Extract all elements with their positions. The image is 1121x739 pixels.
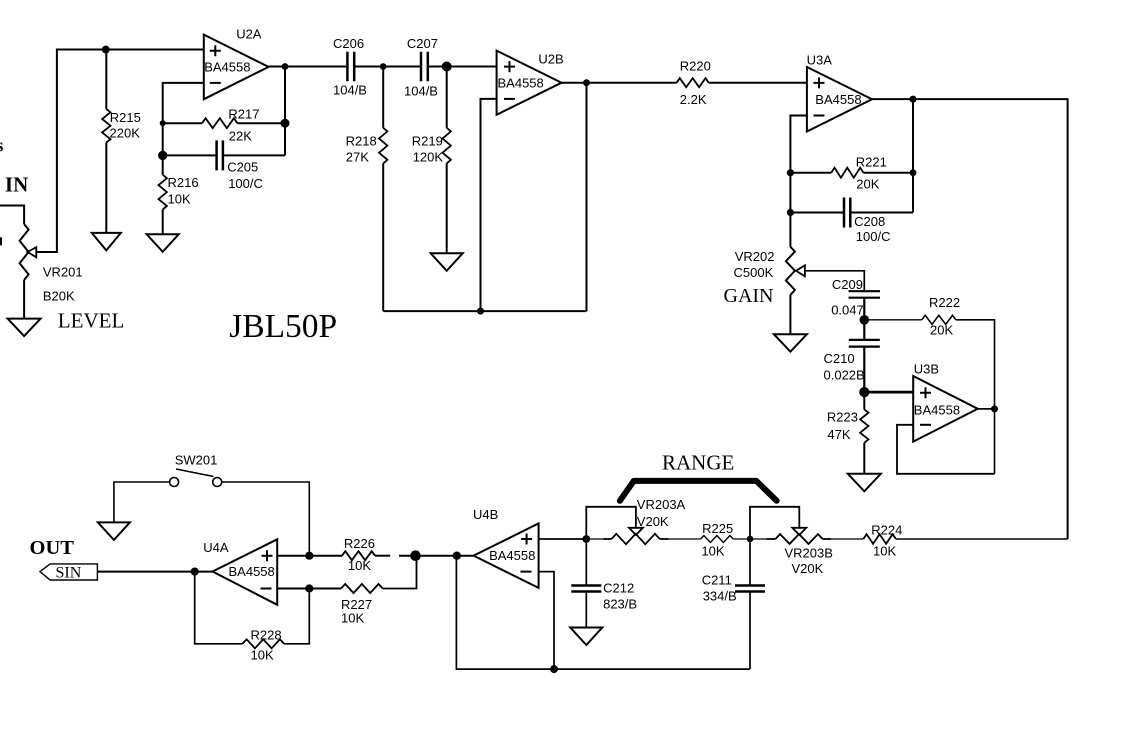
node U3A output: [910, 96, 917, 103]
svg-text:U4A: U4A: [203, 540, 229, 555]
text fragment left edge 2: [0, 237, 2, 245]
svg-text:104/B: 104/B: [333, 83, 367, 98]
svg-text:C209: C209: [832, 277, 863, 292]
wire U2B output: [562, 82, 677, 84]
svg-text:RANGE: RANGE: [662, 451, 734, 475]
node U2B output: [583, 79, 590, 86]
potentiometer VR203B: [750, 538, 766, 540]
capacitor C207: [421, 52, 428, 81]
capacitor C211: [749, 539, 751, 586]
wire U2A feedback from minus: [163, 83, 204, 155]
wire U3A output to far right: [872, 99, 1068, 539]
svg-text:R215: R215: [110, 110, 141, 125]
svg-text:120K: 120K: [413, 150, 444, 165]
RANGE bracket: [620, 481, 777, 501]
resistor R223: [863, 392, 865, 409]
node C208 left: [787, 209, 794, 216]
switch SW201 left contact: [170, 478, 179, 487]
ground under SW201: [98, 522, 130, 540]
svg-text:U3A: U3A: [807, 52, 833, 67]
svg-text:10K: 10K: [701, 543, 724, 558]
svg-text:R218: R218: [346, 134, 377, 149]
svg-text:0.047: 0.047: [831, 303, 864, 318]
svg-text:C500K: C500K: [734, 265, 774, 280]
svg-text:R221: R221: [856, 154, 887, 169]
wire U3B feedback loop: [897, 425, 995, 474]
svg-text:R222: R222: [929, 295, 960, 310]
op-amp U4B: [474, 523, 539, 588]
svg-text:VR203B: VR203B: [785, 545, 833, 560]
U3A plus input mark: [814, 77, 825, 88]
wire VR203B wiper loop: [750, 507, 799, 539]
ground under VR202: [774, 334, 807, 352]
svg-text:R226: R226: [344, 536, 375, 551]
wire C206 to C207: [354, 66, 421, 68]
svg-text:C208: C208: [854, 214, 885, 229]
svg-text:BA4558: BA4558: [498, 76, 544, 91]
wire C207 to U2B: [428, 66, 497, 68]
wire VR201 bottom: [23, 280, 25, 319]
svg-text:823/B: 823/B: [603, 596, 637, 611]
ground under C212: [570, 628, 602, 646]
svg-text:10K: 10K: [873, 543, 896, 558]
wire SW201 to U4A plus: [222, 482, 310, 556]
svg-text:SIN: SIN: [56, 564, 82, 581]
svg-text:R223: R223: [827, 410, 858, 425]
svg-text:100/C: 100/C: [228, 176, 263, 191]
net flag SIN: [40, 564, 97, 580]
node C207 output junction: [442, 62, 452, 72]
svg-text:0.022B: 0.022B: [824, 367, 865, 382]
svg-text:47K: 47K: [827, 427, 850, 442]
U2A plus input mark: [210, 45, 221, 56]
svg-text:C205: C205: [227, 159, 258, 174]
wire U2B output riser: [586, 83, 588, 311]
U2B plus input mark: [504, 61, 515, 72]
switch SW201 arm: [176, 469, 214, 477]
wire U4A minus row: [277, 588, 341, 590]
wiper arrow VR203B: [792, 528, 806, 535]
svg-text:V20K: V20K: [792, 561, 824, 576]
wire U2B feedback bottom rail: [383, 310, 586, 312]
svg-text:BA4558: BA4558: [229, 564, 275, 579]
svg-text:B20K: B20K: [43, 288, 75, 303]
capacitor C212: [585, 539, 587, 586]
U4A minus input mark: [261, 588, 272, 590]
svg-text:VR203A: VR203A: [637, 497, 686, 512]
wire IN to VR201: [0, 206, 24, 225]
wire to U3B plus input: [864, 391, 913, 394]
svg-text:R228: R228: [251, 628, 282, 643]
svg-text:20K: 20K: [856, 176, 879, 191]
wire U2B minus input: [481, 99, 497, 311]
node R217 right: [281, 119, 290, 128]
svg-text:10K: 10K: [168, 191, 191, 206]
node U2B feedback junction: [477, 308, 484, 315]
U4A plus input mark: [262, 550, 273, 561]
wire R226 to junction (after gap): [399, 555, 416, 557]
svg-text:U2B: U2B: [538, 52, 563, 67]
svg-text:BA4558: BA4558: [204, 60, 250, 75]
wiper arrow VR202: [796, 265, 805, 276]
svg-text:10K: 10K: [341, 610, 364, 625]
wire U3B output: [978, 408, 995, 410]
node C206-C207 junction: [380, 63, 387, 70]
U3B plus input mark: [920, 387, 931, 398]
node R221 right: [910, 169, 917, 176]
node U4A minus: [305, 584, 313, 592]
node U4A plus: [305, 552, 313, 560]
resistor R226: [342, 551, 375, 560]
svg-text:20K: 20K: [930, 323, 953, 338]
op-amp U3B: [913, 376, 978, 442]
svg-text:C210: C210: [824, 351, 855, 366]
ground under R216: [147, 234, 179, 252]
resistor R228 feedback: [195, 572, 243, 644]
svg-text:VR202: VR202: [735, 249, 775, 264]
wiper arrow VR203A: [629, 528, 643, 535]
wire U4B plus row: [539, 538, 587, 540]
resistor R225: [701, 536, 734, 543]
svg-text:10K: 10K: [251, 647, 274, 662]
wire U4A plus row: [277, 555, 342, 557]
wire U3A minus input: [790, 116, 807, 247]
node C212 top: [582, 535, 590, 543]
node U3B output: [991, 405, 998, 412]
wire U2A output: [269, 66, 348, 68]
ground under VR201: [8, 319, 41, 337]
svg-text:OUT: OUT: [30, 537, 75, 559]
svg-text:10K: 10K: [348, 558, 371, 573]
svg-text:IN: IN: [5, 172, 28, 196]
svg-text:BA4558: BA4558: [489, 548, 535, 563]
wire C210 to node: [863, 347, 865, 393]
svg-text:27K: 27K: [346, 150, 369, 165]
wire VR201 wiper riser: [36, 50, 204, 253]
node C211 top: [747, 536, 754, 543]
node R226-R227 junction: [410, 550, 421, 561]
resistor R215: [105, 50, 107, 110]
svg-text:V20K: V20K: [637, 514, 669, 529]
svg-text:R216: R216: [168, 175, 199, 190]
svg-text:104/B: 104/B: [404, 83, 438, 98]
resistor R224: [863, 534, 896, 544]
node R221 left: [787, 169, 794, 176]
svg-text:U3B: U3B: [914, 362, 939, 377]
svg-text:C206: C206: [333, 36, 364, 51]
wire U3A output riser: [912, 99, 914, 212]
ground under R223: [848, 474, 881, 492]
ground under R219: [431, 253, 463, 270]
node U3B plus junction: [859, 387, 869, 397]
node C205 left: [158, 151, 167, 160]
svg-text:22K: 22K: [229, 128, 252, 143]
wiper arrow VR201: [28, 247, 37, 257]
svg-text:U2A: U2A: [236, 27, 262, 42]
U2B minus input mark: [504, 98, 515, 100]
capacitor C206: [347, 52, 354, 81]
resistor R222: [864, 319, 922, 321]
svg-text:JBL50P: JBL50P: [229, 308, 337, 345]
resistor R220: [677, 78, 709, 87]
svg-text:R219: R219: [412, 134, 443, 149]
node U4B output: [453, 552, 461, 560]
node C209-C210 junction: [860, 315, 870, 325]
svg-text:R217: R217: [228, 107, 259, 122]
resistor R227: [341, 584, 383, 593]
wire VR202 wiper to C209: [805, 271, 864, 291]
svg-text:BA4558: BA4558: [914, 402, 960, 417]
resistor R218: [382, 67, 384, 128]
potentiometer VR201: [20, 224, 29, 280]
U3A minus input mark: [814, 115, 825, 117]
svg-text:C207: C207: [407, 36, 438, 51]
potentiometer VR203A: [586, 538, 603, 540]
svg-text:LEVEL: LEVEL: [58, 308, 124, 332]
wire VR202 bottom: [789, 295, 791, 334]
U2A minus input mark: [210, 82, 221, 84]
svg-text:100/C: 100/C: [856, 229, 891, 244]
svg-text:s: s: [0, 136, 3, 157]
capacitor C209: [849, 291, 881, 298]
resistor R221: [790, 172, 831, 174]
switch SW201 right contact: [213, 478, 222, 487]
svg-text:VR201: VR201: [43, 264, 83, 279]
svg-text:334/B: 334/B: [703, 589, 737, 604]
capacitor C208: [790, 212, 844, 214]
U3B minus input mark: [920, 424, 931, 426]
capacitor C210: [863, 320, 865, 340]
svg-text:SW201: SW201: [175, 453, 218, 468]
svg-text:BA4558: BA4558: [815, 92, 861, 107]
wire SW201 to ground: [114, 482, 170, 522]
op-amp U3A: [807, 67, 872, 132]
wire C209 to node: [863, 298, 865, 320]
ground under R215: [92, 233, 121, 251]
svg-text:C212: C212: [603, 580, 634, 595]
wire U4B bottom rail: [456, 556, 750, 669]
op-amp U2B: [497, 51, 562, 115]
U4B plus input mark: [521, 534, 532, 545]
resistor R217: [163, 122, 202, 124]
op-amp U2A: [204, 35, 269, 100]
node U2A output: [282, 63, 289, 70]
U4B minus input mark: [521, 571, 532, 573]
svg-text:2.2K: 2.2K: [680, 92, 707, 107]
svg-text:U4B: U4B: [473, 507, 498, 522]
svg-text:R224: R224: [871, 522, 902, 537]
svg-text:C211: C211: [702, 572, 732, 587]
svg-text:R220: R220: [680, 59, 711, 74]
wire R217 right riser: [284, 67, 286, 156]
svg-text:R225: R225: [702, 521, 733, 536]
op-amp U4A: [213, 539, 278, 605]
node A (R215 tap): [102, 46, 110, 54]
node R217 left: [160, 120, 166, 126]
wire junction to U4B output: [416, 555, 474, 557]
wire SIN to U4A output: [97, 571, 212, 573]
svg-text:GAIN: GAIN: [724, 285, 774, 307]
capacitor C205: [163, 154, 217, 156]
wire U4B minus input: [539, 572, 554, 670]
potentiometer VR202: [786, 247, 795, 295]
svg-text:220K: 220K: [110, 126, 141, 141]
resistor R219: [446, 67, 448, 128]
wire VR203A wiper loop: [586, 507, 636, 539]
node U4B minus junction: [550, 665, 558, 673]
resistor R216: [162, 155, 164, 174]
node U4A output: [191, 568, 199, 576]
